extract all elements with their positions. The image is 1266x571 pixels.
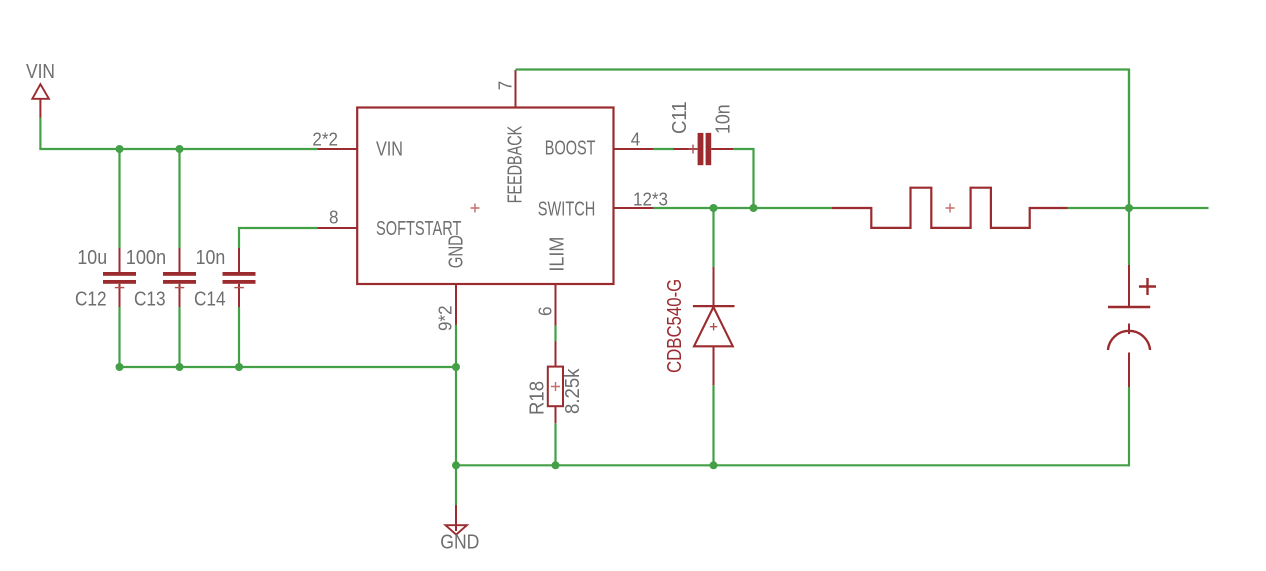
wire R18 bottom: [554, 423, 556, 465]
pin SWITCH stub: [614, 207, 654, 209]
pin SOFTSTART stub: [318, 227, 358, 229]
pin ILIM stub: [555, 284, 557, 326]
wire output stub right: [1129, 207, 1209, 209]
capacitor C13: [163, 248, 196, 307]
diode CDBC540-G: [693, 267, 735, 385]
node junction GND bottom: [452, 461, 460, 469]
resistor R18: [548, 342, 563, 424]
node junction diode switch: [710, 204, 718, 212]
wire output cap top: [1128, 70, 1130, 266]
node junction diode rail: [710, 461, 718, 469]
pin FEEDBACK stub: [515, 70, 517, 108]
wire output cap bottom: [1128, 387, 1130, 466]
inductor L1 square symbol: [832, 188, 1068, 228]
node junction C13 rail: [176, 363, 184, 371]
wire R18 top: [554, 326, 556, 343]
svg-text:GND: GND: [440, 531, 479, 553]
svg-text:C13: C13: [134, 287, 166, 310]
node junction C11 switch: [750, 204, 758, 212]
wire GND pin down: [455, 325, 457, 466]
wire diode bottom: [712, 385, 714, 465]
svg-text:9*2: 9*2: [435, 305, 456, 331]
IC U1 body: [357, 108, 613, 285]
svg-text:4: 4: [631, 129, 641, 150]
wire bottom ground rail: [456, 464, 1129, 466]
svg-text:10u: 10u: [77, 247, 107, 269]
svg-text:ILIM: ILIM: [547, 237, 569, 272]
svg-text:7: 7: [495, 81, 516, 90]
node junction VIN-C13: [176, 145, 184, 153]
svg-text:2*2: 2*2: [312, 129, 338, 150]
wire VIN vertical: [39, 118, 41, 150]
svg-text:8: 8: [329, 207, 339, 228]
wire C14 bottom: [238, 307, 240, 367]
wire FEEDBACK net top: [516, 70, 1130, 209]
wire inductor to output node: [1068, 207, 1130, 209]
node junction VIN-C12: [116, 145, 124, 153]
supply symbol VIN: [26, 60, 55, 118]
wire C12 top drop: [118, 149, 120, 248]
svg-text:C12: C12: [75, 287, 107, 310]
capacitor C14: [223, 248, 256, 307]
U1 origin cross: [471, 204, 480, 213]
node junction C14 rail: [235, 363, 243, 371]
svg-text:GND: GND: [444, 235, 467, 268]
svg-text:10n: 10n: [196, 247, 226, 269]
pin GND stub: [455, 284, 457, 325]
wire VIN horizontal rail: [39, 148, 317, 150]
svg-text:BOOST: BOOST: [545, 136, 596, 159]
svg-text:10n: 10n: [713, 104, 735, 134]
ground symbol GND: [446, 505, 467, 535]
svg-text:CDBC540-G: CDBC540-G: [663, 279, 686, 373]
capacitor CPOL output: [1108, 265, 1156, 387]
wire GND symbol stub: [455, 465, 457, 505]
node junction GND rail: [452, 363, 460, 371]
wire SOFTSTART net: [239, 228, 318, 248]
wire SWITCH net: [654, 207, 832, 209]
capacitor C12: [103, 248, 136, 307]
svg-text:SWITCH: SWITCH: [538, 197, 596, 220]
svg-text:C14: C14: [194, 287, 226, 310]
wire C13 top drop: [178, 149, 180, 248]
svg-text:12*3: 12*3: [633, 189, 668, 210]
svg-text:R18: R18: [527, 381, 549, 415]
wire diode drop: [712, 208, 714, 267]
svg-text:VIN: VIN: [26, 60, 55, 82]
svg-text:VIN: VIN: [376, 138, 403, 160]
wire capacitor ground rail: [120, 366, 457, 368]
node junction output: [1125, 204, 1133, 212]
node junction C12 rail: [116, 363, 124, 371]
wire C11 to switch node: [733, 149, 753, 208]
pin BOOST stub: [614, 148, 654, 150]
wire BOOST to C11: [654, 148, 675, 150]
capacitor C11: [674, 133, 734, 165]
svg-text:C11: C11: [669, 101, 691, 134]
wire C13 bottom: [178, 307, 180, 367]
pin VIN stub: [318, 148, 358, 150]
svg-text:100n: 100n: [126, 247, 166, 269]
svg-text:6: 6: [535, 306, 556, 316]
node junction R18 rail: [552, 461, 560, 469]
svg-text:8.25k: 8.25k: [562, 368, 584, 414]
wire C12 bottom: [118, 307, 120, 367]
svg-text:FEEDBACK: FEEDBACK: [503, 125, 526, 203]
